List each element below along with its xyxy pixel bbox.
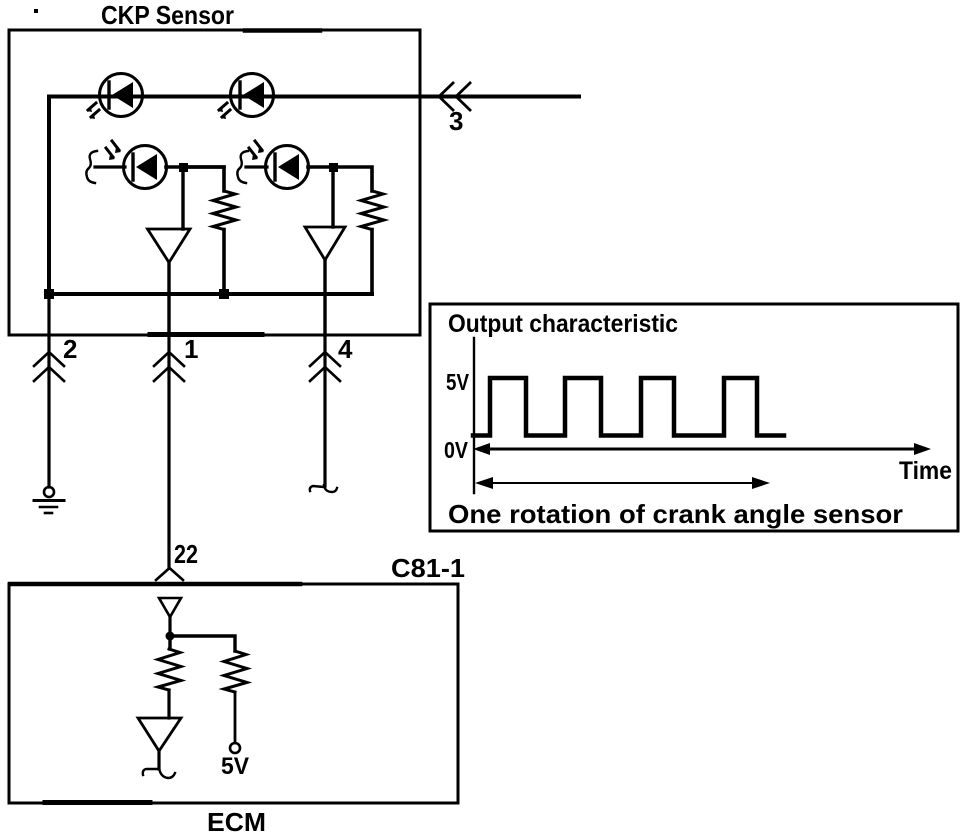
- svg-text:C81-1: C81-1: [391, 553, 465, 583]
- svg-text:4: 4: [338, 334, 353, 364]
- connector chevrons pin 1: [154, 352, 184, 381]
- graph Y axis: [473, 338, 475, 493]
- resistor R3: [158, 649, 181, 690]
- wire: node E to resistor R3 top: [168, 636, 171, 649]
- square wave trace: [473, 378, 784, 436]
- wire 4 open end squiggle: [310, 485, 337, 492]
- svg-text:One rotation of crank angle se: One rotation of crank angle sensor: [448, 499, 903, 529]
- U4 open end squiggle: [143, 767, 175, 778]
- wire: R4 bottom to 5V terminal: [234, 692, 237, 743]
- wire: node E to resistor R4 top: [170, 636, 235, 651]
- connector chevrons pin 3: [439, 83, 470, 110]
- wire: node B right and down to resistor R2: [333, 167, 372, 191]
- svg-text:5V: 5V: [221, 753, 249, 780]
- svg-text:Output characteristic: Output characteristic: [448, 310, 678, 338]
- op-amp U4 (output stage): [138, 718, 181, 751]
- ground: [34, 487, 64, 513]
- graph box (output characteristic): [430, 304, 958, 531]
- node A (photodiode D3 output junction): [179, 163, 188, 172]
- wire: U3 output to node E: [168, 617, 171, 636]
- wire: top supply wire (pin 3): [49, 97, 579, 295]
- time axis arrow: [473, 443, 931, 455]
- node B (photodiode D4 output junction): [329, 163, 338, 172]
- connector chevrons pin 4: [310, 352, 340, 381]
- op-amp U3 (input buffer in ECM): [159, 598, 181, 617]
- wire: R1 bottom to bus: [222, 230, 226, 295]
- svg-text:Time: Time: [899, 457, 952, 485]
- wire: U1 output down (pin 1 lead inside box): [167, 263, 170, 336]
- wire: R3 bottom to inverter U4: [167, 690, 170, 718]
- wire 2 (pin 2 lead to ground): [47, 294, 50, 487]
- wire: ground bus: [49, 292, 372, 296]
- connector chevron pin 22: [156, 568, 183, 580]
- svg-text:0V: 0V: [444, 437, 469, 463]
- LED D1: [87, 74, 143, 120]
- svg-text:5V: 5V: [446, 369, 470, 395]
- wire: R2 bottom to bus corner: [370, 230, 374, 295]
- svg-text:22: 22: [174, 539, 198, 569]
- scan speck: [34, 9, 38, 13]
- LED D2: [218, 74, 274, 120]
- photodiode D4: [237, 141, 333, 189]
- wire: node A down to buffer U1 input: [181, 167, 184, 229]
- svg-text:2: 2: [63, 334, 77, 364]
- wire: U4 output stub: [157, 751, 160, 769]
- one rotation span arrow: [475, 477, 770, 489]
- connector chevrons pin 2: [34, 352, 64, 381]
- CKP Sensor box: [9, 30, 420, 335]
- wire 1 (pin 1 lead to ECM): [167, 335, 170, 568]
- wire 4 (pin 4 lead): [323, 335, 326, 486]
- photodiode D3: [86, 141, 224, 189]
- 5V terminal circle: [230, 743, 240, 753]
- node E (ECM junction): [166, 632, 175, 641]
- node C (bus left junction): [44, 289, 54, 299]
- wire: U2 output down (pin 4 lead inside box): [323, 260, 326, 335]
- resistor R2: [361, 191, 384, 230]
- op-amp U2 (buffer): [305, 227, 345, 260]
- ECM box: [9, 584, 458, 803]
- resistor R1: [213, 191, 236, 230]
- node D (bus / R1 junction): [219, 289, 229, 299]
- svg-text:3: 3: [449, 106, 463, 136]
- resistor R4: [224, 651, 247, 692]
- svg-text:1: 1: [184, 334, 198, 364]
- svg-text:CKP Sensor: CKP Sensor: [101, 0, 234, 30]
- op-amp U1 (buffer): [148, 229, 191, 263]
- svg-text:ECM: ECM: [207, 807, 266, 837]
- wire: node A right and down to resistor R1: [183, 167, 224, 191]
- wire: node B down to buffer U2 input: [331, 167, 334, 227]
